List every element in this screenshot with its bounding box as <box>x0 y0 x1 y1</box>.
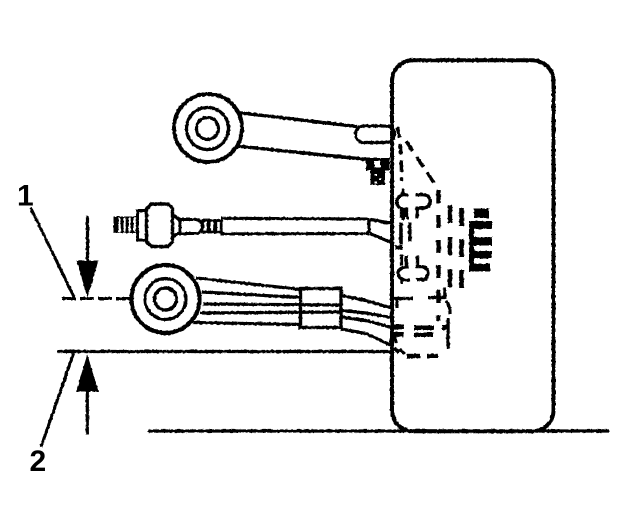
upper arm flattened end boss <box>356 126 395 143</box>
tie rod threaded stud <box>114 217 138 234</box>
hidden ball joint equal marks <box>394 325 435 338</box>
tie rod end taper into knuckle <box>370 219 395 243</box>
lower arm lines to knuckle 4 <box>341 329 394 347</box>
lower control arm bushing inner bore <box>155 288 177 310</box>
hidden curve below tab <box>446 301 450 314</box>
hidden knuckle verticals middle left <box>399 223 403 245</box>
tie rod jam collar <box>138 211 148 241</box>
hidden tab mark left <box>394 299 413 309</box>
tie rod ball socket barrel <box>147 204 173 247</box>
upper control arm shaft top edge <box>237 113 357 127</box>
tie rod socket taper to neck <box>173 215 181 237</box>
hidden caliper fin block <box>469 209 492 272</box>
lower arm lines to knuckle 1 <box>341 296 394 309</box>
upper ball joint stud threads <box>371 171 386 186</box>
lower control arm bushing outer ring <box>132 265 200 333</box>
ground line <box>148 429 609 432</box>
hidden knuckle dashed vertical column a <box>436 190 440 321</box>
label 2 leader line <box>41 354 74 448</box>
lower arm rod line 3 <box>203 304 341 305</box>
lower arm lines to knuckle 2 <box>341 311 394 319</box>
tie rod shaft <box>221 218 369 234</box>
hidden bolt hole lower right <box>416 256 419 266</box>
hidden bolt hole upper right <box>416 195 430 208</box>
hidden small tick lower left <box>394 348 399 353</box>
lower arm adjuster sleeve <box>301 289 342 328</box>
lower horizontal reference line <box>57 350 394 353</box>
dimension arrow up shaft <box>86 392 89 435</box>
dimension arrow down shaft <box>86 216 89 262</box>
upper control arm bushing inner bore <box>197 118 219 140</box>
hidden knuckle dashed vertical column b <box>448 205 452 291</box>
lower arm rod line 5 <box>193 323 301 325</box>
dashed dimension line at lower arm center <box>62 297 133 300</box>
tire/wheel outline <box>392 60 554 431</box>
upper control arm shaft bottom edge <box>237 146 367 160</box>
hidden strut dashed diagonal <box>406 141 434 183</box>
tie rod neck <box>180 220 203 234</box>
lower arm rod line 4 <box>200 312 341 313</box>
hidden tab mark right <box>428 288 445 300</box>
lower arm rod line 1 <box>196 278 301 290</box>
upper ball joint nut <box>366 158 390 171</box>
hidden ball joint bottom dashes <box>407 354 421 358</box>
hidden knuckle dashed vertical column c <box>459 208 464 294</box>
upper control arm bushing middle ring <box>187 108 229 150</box>
lower control arm bushing middle ring <box>145 279 186 320</box>
dimension arrow up head <box>76 355 99 392</box>
hidden bolt hole upper left <box>401 189 404 197</box>
hidden strut dashed curve near tire edge <box>398 127 402 181</box>
tie rod boot clamp ridges <box>203 221 208 233</box>
svg-text:1: 1 <box>17 180 34 213</box>
svg-text:2: 2 <box>30 445 47 478</box>
hidden ball joint stem vertical <box>446 318 449 349</box>
label 1 leader line <box>31 208 75 299</box>
lower arm rod line 2 <box>202 292 301 298</box>
hidden ball joint dashed arc bottom left <box>395 334 406 354</box>
hidden bolt hole lower left <box>402 255 407 266</box>
dimension arrow down head <box>77 261 99 298</box>
lower arm lines to knuckle 3 <box>341 317 394 328</box>
upper control arm bushing outer ring <box>174 94 242 162</box>
